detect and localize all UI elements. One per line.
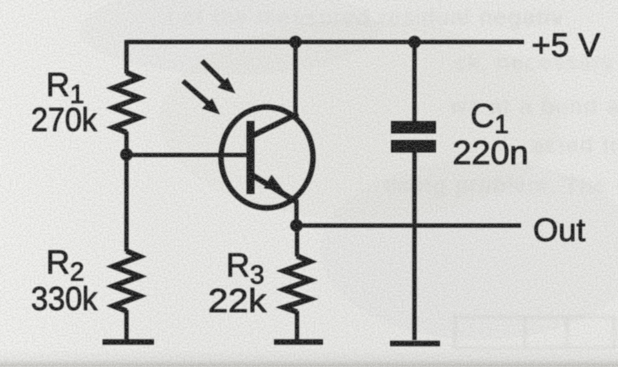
capacitor C1 220n plates bbox=[391, 121, 436, 153]
wire collector to +5V rail bbox=[293, 42, 297, 116]
resistor R2 330k body bbox=[114, 251, 140, 311]
transistor Q1 phototransistor (circle, base bar, collector and emitter strokes, emitter arrow) bbox=[221, 107, 313, 208]
resistor R1 270k body bbox=[114, 73, 140, 133]
light arrow 2 (lower) bbox=[183, 81, 220, 115]
wire rail down to C1 top plate bbox=[412, 42, 416, 122]
wire C1 bottom plate to ground (crosses Out line) bbox=[412, 152, 416, 340]
wire base node down to R2 bbox=[124, 154, 128, 252]
wire output (node to Out) bbox=[297, 223, 522, 227]
wire +5V supply rail bbox=[125, 40, 525, 44]
wire left branch from rail down to R1 bbox=[124, 40, 128, 74]
resistor R3 22k body bbox=[284, 256, 310, 312]
ground symbol (R2 branch) bbox=[103, 339, 155, 345]
node collector junction on rail bbox=[289, 36, 302, 49]
node C1 junction on rail bbox=[408, 36, 421, 49]
wire R2 bottom to ground bbox=[124, 310, 128, 340]
wire R3 bottom to ground bbox=[295, 311, 299, 340]
wire R1 bottom to base node bbox=[124, 132, 128, 156]
wire output node down to R3 bbox=[295, 226, 299, 257]
wire base (node to transistor base) bbox=[127, 153, 248, 157]
node base junction A bbox=[120, 148, 133, 161]
ground symbol (C1 branch) bbox=[390, 341, 440, 347]
node emitter / output junction bbox=[290, 219, 303, 232]
wire emitter down to output node bbox=[294, 200, 298, 226]
light arrow 1 (upper) bbox=[202, 61, 236, 94]
ground symbol (R3 branch) bbox=[274, 339, 323, 345]
